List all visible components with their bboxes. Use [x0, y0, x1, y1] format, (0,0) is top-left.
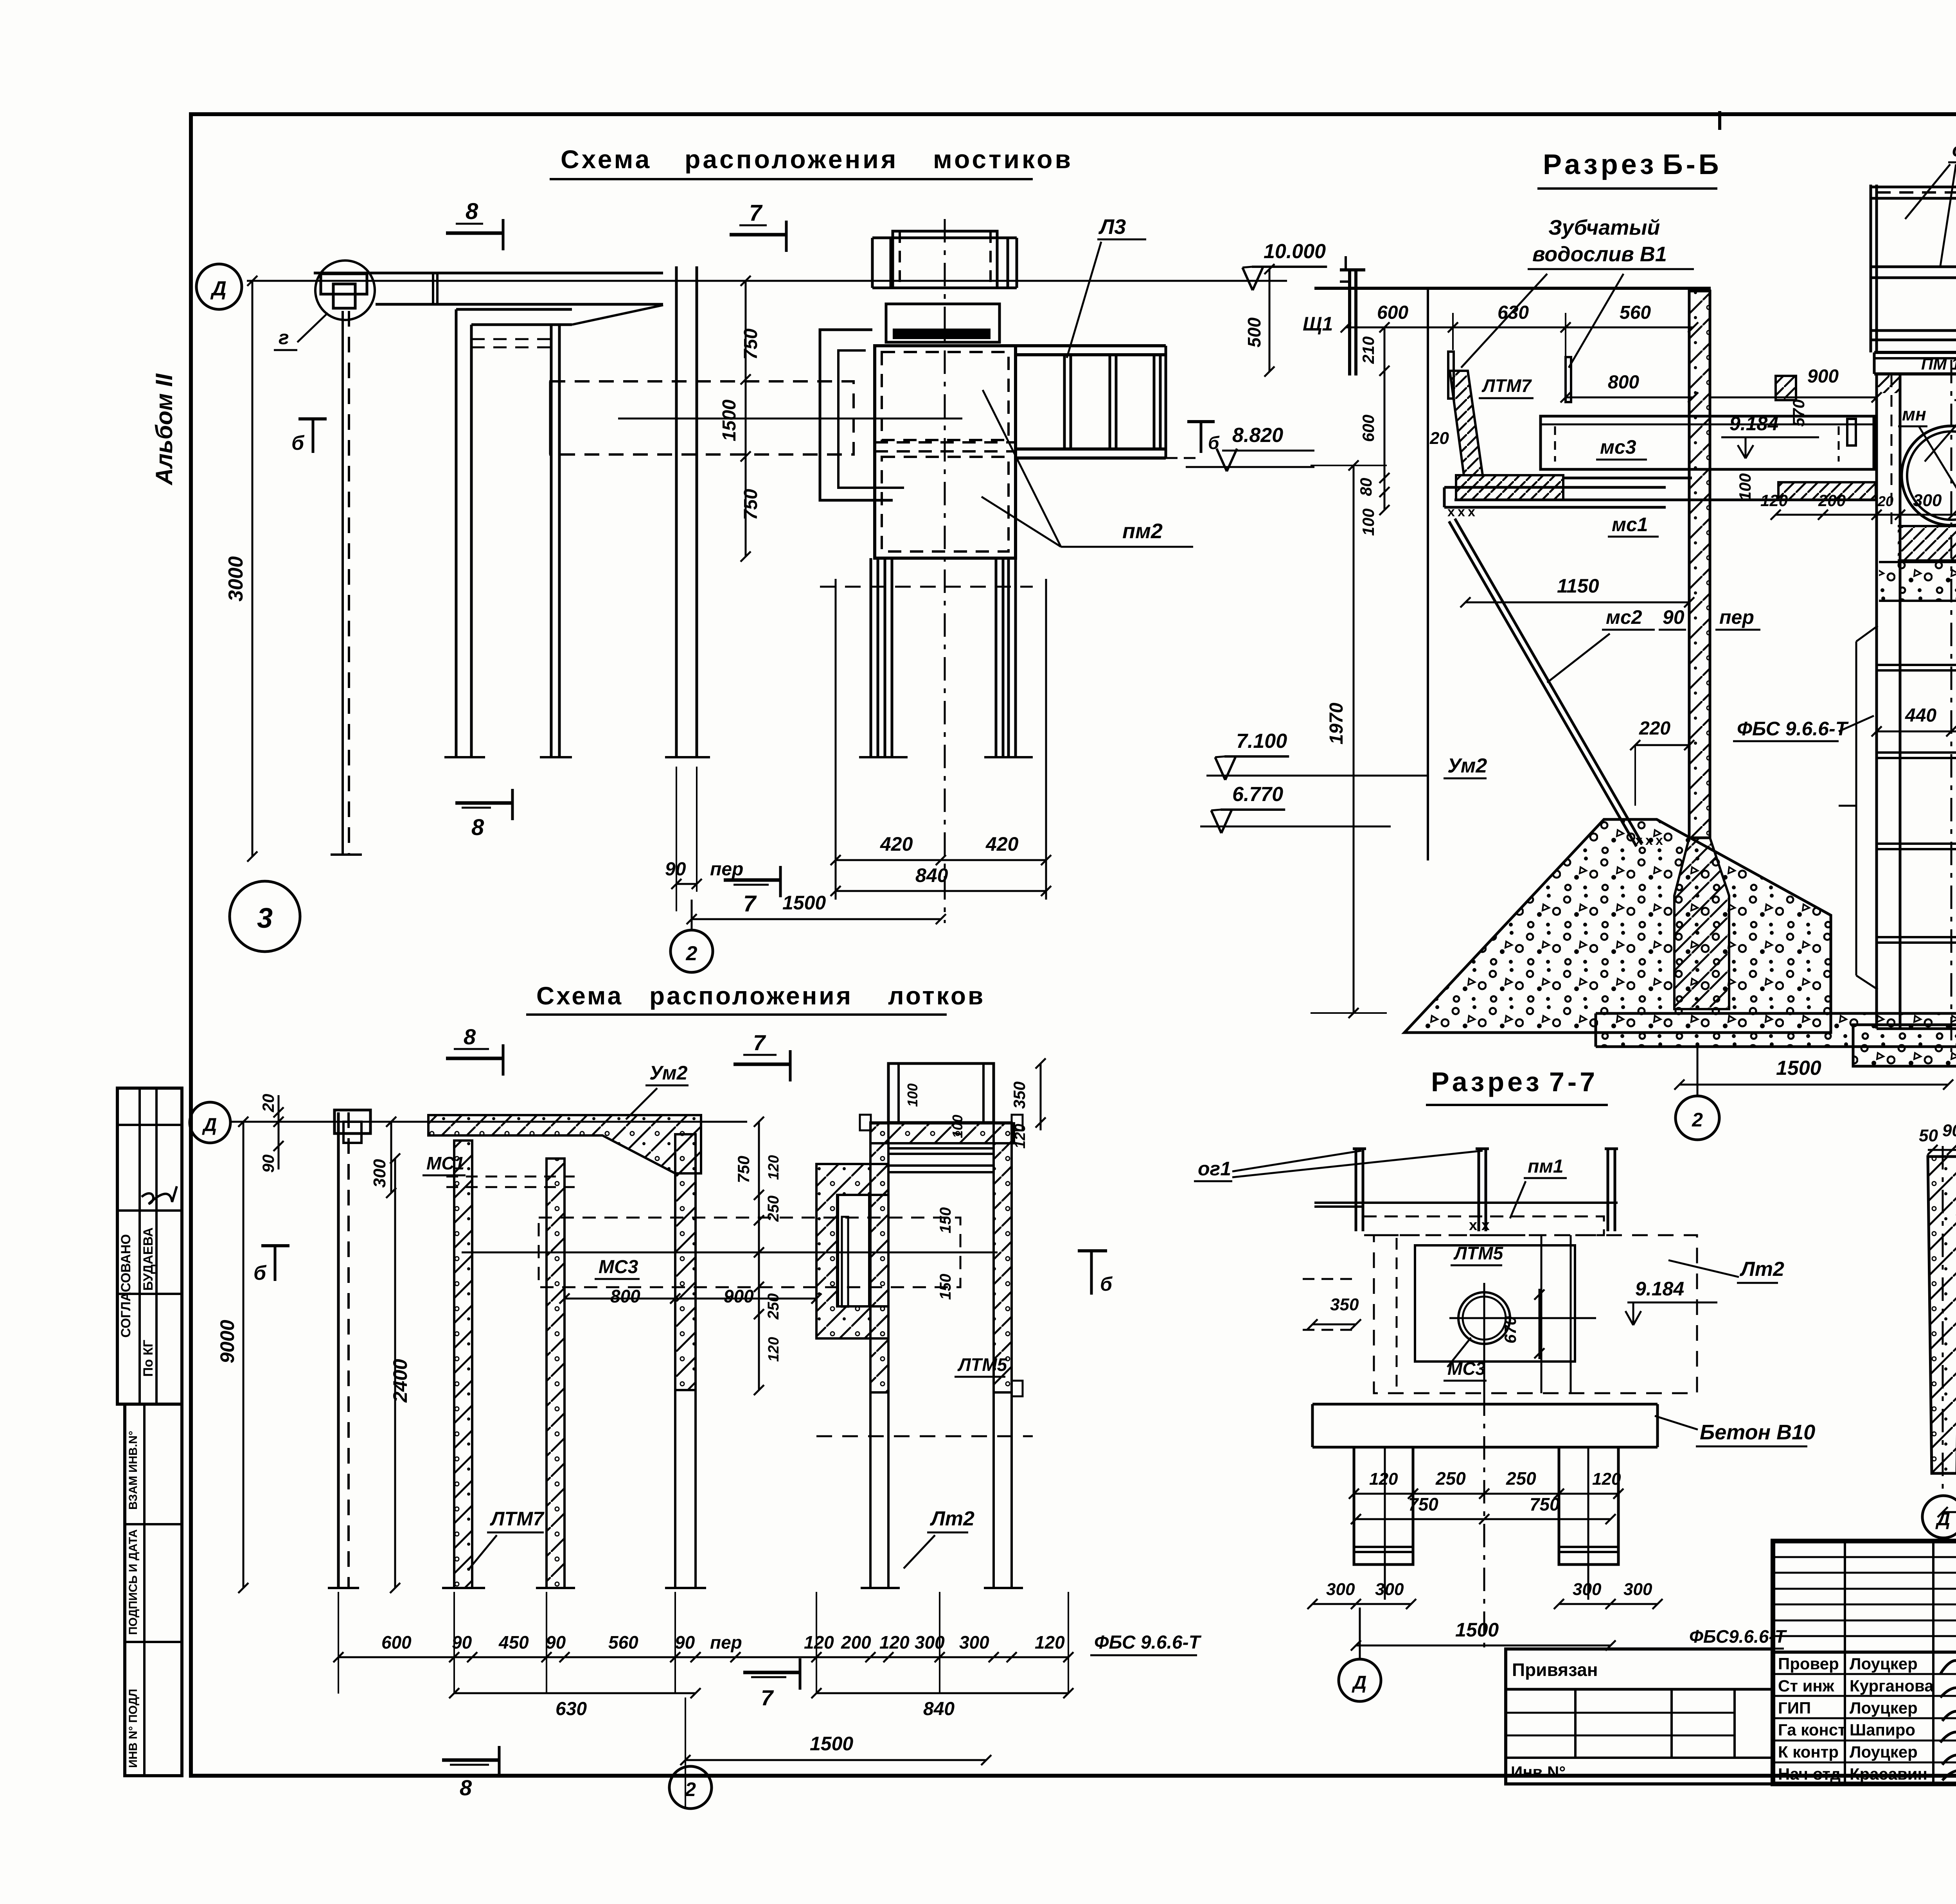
svg-text:7: 7 [749, 200, 763, 226]
svg-text:7: 7 [753, 1030, 766, 1055]
svg-text:мс2: мс2 [1606, 606, 1642, 628]
svg-text:Разрез: Разрез [1543, 149, 1657, 180]
svg-text:840: 840 [923, 1699, 955, 1719]
svg-text:x x: x x [1469, 1217, 1490, 1234]
svg-text:8.820: 8.820 [1232, 424, 1283, 447]
svg-text:б: б [291, 432, 305, 454]
svg-text:600: 600 [1377, 302, 1408, 323]
svg-text:Д: Д [1352, 1672, 1367, 1693]
svg-text:350: 350 [1330, 1295, 1359, 1314]
svg-text:750: 750 [734, 1156, 753, 1183]
svg-text:Лт2: Лт2 [929, 1507, 974, 1530]
svg-text:ПОДПИСЬ И ДАТА: ПОДПИСЬ И ДАТА [127, 1529, 140, 1635]
svg-text:600: 600 [1359, 415, 1377, 442]
svg-text:МС1: МС1 [426, 1153, 464, 1173]
svg-text:Красавин: Красавин [1850, 1765, 1927, 1783]
svg-text:800: 800 [1608, 372, 1639, 393]
svg-text:Привязан: Привязан [1512, 1660, 1598, 1680]
svg-text:420: 420 [985, 833, 1019, 855]
svg-text:ог1: ог1 [1198, 1158, 1231, 1180]
svg-text:Бетон В10: Бетон В10 [1700, 1421, 1815, 1444]
svg-text:80: 80 [1357, 478, 1375, 496]
svg-text:Л3: Л3 [1098, 215, 1126, 239]
svg-text:9000: 9000 [216, 1320, 238, 1363]
svg-text:350: 350 [1010, 1081, 1028, 1109]
svg-text:7: 7 [743, 891, 757, 916]
svg-text:г: г [279, 327, 289, 348]
svg-text:7-7: 7-7 [1549, 1067, 1598, 1097]
svg-text:840: 840 [915, 864, 948, 886]
svg-text:Ст инж: Ст инж [1778, 1676, 1835, 1695]
svg-text:2: 2 [685, 1778, 696, 1800]
svg-text:250: 250 [765, 1196, 782, 1222]
svg-text:2: 2 [686, 942, 698, 965]
svg-text:10.000: 10.000 [1264, 240, 1326, 263]
svg-text:Лоуцкер: Лоуцкер [1850, 1699, 1918, 1717]
svg-text:300: 300 [370, 1159, 389, 1188]
svg-text:7: 7 [761, 1685, 774, 1710]
svg-text:1500: 1500 [810, 1733, 853, 1755]
svg-text:Лоуцкер: Лоуцкер [1850, 1654, 1918, 1673]
svg-text:1970: 1970 [1326, 702, 1347, 744]
svg-text:1500: 1500 [719, 399, 740, 441]
svg-text:300: 300 [1573, 1580, 1602, 1599]
svg-text:630: 630 [556, 1699, 587, 1719]
svg-text:750: 750 [741, 489, 761, 520]
svg-text:440: 440 [1905, 705, 1936, 726]
svg-text:лотков: лотков [888, 982, 985, 1010]
svg-text:90: 90 [1942, 1121, 1956, 1140]
svg-text:120: 120 [766, 1337, 782, 1362]
svg-text:250: 250 [1506, 1468, 1536, 1489]
svg-text:120: 120 [1369, 1469, 1398, 1489]
svg-text:90: 90 [675, 1632, 695, 1653]
svg-text:1500: 1500 [782, 892, 826, 914]
svg-text:СОГЛАСОВАНО: СОГЛАСОВАНО [119, 1234, 133, 1338]
svg-text:90: 90 [1663, 606, 1685, 628]
svg-text:560: 560 [608, 1632, 638, 1653]
svg-text:расположения: расположения [685, 145, 898, 174]
svg-text:90: 90 [665, 859, 686, 880]
svg-text:120: 120 [766, 1155, 782, 1180]
svg-text:6.770: 6.770 [1232, 783, 1283, 806]
svg-text:120: 120 [1012, 1124, 1028, 1148]
svg-text:1500: 1500 [1776, 1057, 1821, 1080]
svg-text:420: 420 [880, 833, 913, 855]
svg-text:К контр: К контр [1778, 1743, 1839, 1761]
svg-text:Д: Д [1935, 1509, 1951, 1530]
svg-text:мс1: мс1 [1612, 514, 1648, 535]
svg-text:7.100: 7.100 [1236, 730, 1287, 753]
svg-text:расположения: расположения [649, 982, 853, 1010]
svg-text:Курганова: Курганова [1850, 1676, 1934, 1695]
svg-text:9.184: 9.184 [1729, 413, 1778, 435]
svg-text:210: 210 [1359, 336, 1377, 364]
svg-text:800: 800 [610, 1286, 640, 1306]
svg-text:x: x [1468, 505, 1475, 519]
svg-text:250: 250 [1435, 1468, 1466, 1489]
svg-text:мс3: мс3 [1600, 436, 1636, 458]
svg-text:ЛТМ5: ЛТМ5 [957, 1354, 1008, 1375]
svg-text:пер: пер [710, 859, 743, 880]
svg-text:90: 90 [259, 1155, 277, 1173]
svg-text:250: 250 [765, 1293, 782, 1320]
svg-text:1150: 1150 [1557, 575, 1599, 597]
svg-text:900: 900 [1807, 366, 1839, 387]
svg-text:пм2: пм2 [1122, 519, 1163, 543]
svg-text:570: 570 [1789, 399, 1808, 427]
svg-text:пер: пер [1719, 606, 1754, 628]
svg-text:300: 300 [1375, 1580, 1404, 1599]
svg-text:Щ1: Щ1 [1303, 313, 1333, 335]
svg-text:Лт2: Лт2 [1739, 1258, 1784, 1281]
svg-text:670: 670 [1501, 1316, 1519, 1344]
svg-text:300: 300 [1913, 491, 1942, 510]
svg-text:Нач отд: Нач отд [1778, 1765, 1841, 1783]
svg-text:ФБС 9.6.6-Т: ФБС 9.6.6-Т [1094, 1632, 1202, 1653]
svg-text:2400: 2400 [389, 1359, 411, 1403]
svg-text:120: 120 [804, 1632, 834, 1653]
svg-text:300: 300 [1326, 1580, 1355, 1599]
svg-text:Га конст: Га конст [1778, 1721, 1846, 1739]
svg-text:20: 20 [1877, 493, 1893, 509]
svg-text:100: 100 [904, 1083, 920, 1107]
svg-text:Инв.N°: Инв.N° [1511, 1763, 1566, 1781]
svg-text:МС3: МС3 [1447, 1358, 1486, 1379]
svg-text:Провер: Провер [1778, 1654, 1839, 1673]
svg-text:ЛТМ7: ЛТМ7 [490, 1508, 545, 1530]
svg-text:Схема: Схема [561, 145, 652, 174]
svg-text:8: 8 [460, 1775, 472, 1800]
svg-text:750: 750 [1408, 1494, 1438, 1514]
svg-text:20: 20 [1429, 429, 1449, 448]
svg-text:150: 150 [937, 1274, 954, 1300]
svg-text:Ум2: Ум2 [1447, 754, 1487, 777]
svg-text:Д: Д [210, 277, 227, 300]
svg-text:750: 750 [741, 329, 761, 360]
svg-text:По КГ: По КГ [141, 1340, 156, 1377]
svg-text:ог1: ог1 [1952, 139, 1956, 161]
svg-text:750: 750 [1530, 1494, 1560, 1514]
svg-text:x: x [1447, 505, 1455, 519]
svg-text:500: 500 [1244, 317, 1264, 347]
svg-text:пм1: пм1 [1528, 1156, 1564, 1177]
svg-text:Шапиро: Шапиро [1850, 1721, 1915, 1739]
svg-text:ГИП: ГИП [1778, 1699, 1811, 1717]
svg-text:900: 900 [724, 1286, 754, 1306]
svg-text:120: 120 [1035, 1632, 1065, 1653]
svg-text:б: б [253, 1262, 267, 1284]
svg-text:Альбом II: Альбом II [151, 373, 177, 486]
svg-text:100: 100 [1736, 473, 1754, 501]
svg-text:200: 200 [841, 1632, 871, 1653]
svg-text:3000: 3000 [225, 556, 247, 602]
svg-text:2: 2 [1692, 1109, 1703, 1131]
svg-text:150: 150 [937, 1207, 954, 1234]
svg-text:Зубчатый: Зубчатый [1548, 216, 1660, 239]
svg-text:9.184: 9.184 [1635, 1278, 1684, 1300]
svg-text:Ум2: Ум2 [649, 1062, 688, 1084]
svg-text:20: 20 [259, 1094, 277, 1113]
svg-text:ФБС 9.6.6-Т: ФБС 9.6.6-Т [1737, 718, 1849, 740]
svg-text:120: 120 [1592, 1469, 1621, 1489]
svg-text:600: 600 [381, 1632, 412, 1653]
svg-text:Д: Д [202, 1115, 217, 1135]
svg-text:ЛТМ7: ЛТМ7 [1481, 375, 1532, 396]
svg-text:б: б [1100, 1273, 1113, 1295]
svg-text:мостиков: мостиков [933, 145, 1073, 174]
svg-text:300: 300 [959, 1632, 989, 1653]
svg-text:560: 560 [1620, 302, 1651, 323]
svg-text:100: 100 [1359, 508, 1377, 536]
svg-text:120: 120 [879, 1632, 910, 1653]
svg-text:50: 50 [1919, 1126, 1938, 1145]
svg-text:90: 90 [546, 1632, 566, 1653]
svg-text:МС3: МС3 [599, 1257, 638, 1277]
svg-text:8: 8 [471, 815, 484, 840]
svg-text:8: 8 [466, 199, 478, 224]
svg-text:БУДАЕВА: БУДАЕВА [141, 1227, 156, 1291]
svg-text:Схема: Схема [536, 982, 623, 1010]
svg-text:1500: 1500 [1455, 1619, 1499, 1641]
svg-text:пер: пер [710, 1632, 742, 1653]
svg-text:3: 3 [257, 903, 273, 934]
svg-text:630: 630 [1498, 302, 1529, 323]
svg-text:x: x [1458, 505, 1465, 519]
svg-text:ИНВ N° ПОДЛ: ИНВ N° ПОДЛ [127, 1689, 140, 1768]
svg-text:Разрез: Разрез [1431, 1067, 1543, 1097]
svg-text:300: 300 [1623, 1580, 1652, 1599]
svg-text:100: 100 [949, 1115, 965, 1138]
svg-text:Б-Б: Б-Б [1663, 149, 1722, 180]
svg-text:Лоуцкер: Лоуцкер [1850, 1743, 1918, 1761]
svg-text:220: 220 [1639, 718, 1670, 739]
svg-text:мн: мн [1902, 404, 1926, 424]
svg-text:8: 8 [464, 1024, 476, 1049]
svg-text:450: 450 [498, 1632, 529, 1653]
svg-text:ВЗАМ ИНВ.N°: ВЗАМ ИНВ.N° [127, 1431, 140, 1510]
svg-text:водослив В1: водослив В1 [1532, 242, 1667, 266]
